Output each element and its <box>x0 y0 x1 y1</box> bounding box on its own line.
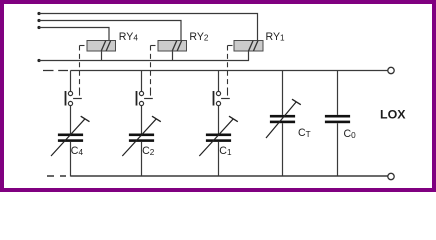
wire branch C4 from main bus to switch <box>70 71 72 92</box>
wire RY2 bottom lead <box>172 51 174 61</box>
wire branch C2 from main bus to switch <box>141 71 143 92</box>
wire C2 to bottom bus <box>141 142 143 177</box>
wire RY4 bottom lead <box>101 51 103 61</box>
capacitor C1 (variable) <box>199 116 238 156</box>
wire bottom bus dashed left stub <box>47 175 66 177</box>
wire relay bus <box>39 51 249 61</box>
relay RY4 <box>87 41 116 52</box>
wire CT to bottom bus <box>282 123 284 176</box>
wire branch C0 from main bus <box>337 71 339 115</box>
switch S4 (relay contact) <box>66 91 82 106</box>
relay RY2 <box>158 41 187 52</box>
capacitor C4 (variable) <box>51 116 90 156</box>
wire C1 to bottom bus <box>218 142 220 177</box>
node relay-bus terminal dot <box>37 59 40 62</box>
mechanical link RY2 to switch S2 (dashed) <box>151 46 159 96</box>
mechanical link RY1 to switch S1 (dashed) <box>228 46 235 96</box>
node feed terminal dot 3 <box>37 26 40 29</box>
wire feed line 3 to RY4 <box>39 28 109 41</box>
capacitor CT (trimmer, variable) <box>266 99 301 138</box>
wire main bus <box>71 70 388 72</box>
capacitor C0 (fixed) <box>325 115 350 123</box>
wire switch S2 to capacitor C2 <box>141 106 143 134</box>
wire branch C1 from main bus to switch <box>218 71 220 92</box>
wire main bus dashed left stub <box>43 70 68 72</box>
wire switch S1 to capacitor C1 <box>218 106 220 134</box>
node feed terminal dot 2 <box>37 19 40 22</box>
switch S2 (relay contact) <box>137 91 153 106</box>
switch S1 (relay contact) <box>214 91 230 106</box>
wire feed line 1 to RY1 <box>39 14 258 41</box>
terminal bottom right (open circle) <box>388 173 394 179</box>
node feed terminal dot 1 <box>37 12 40 15</box>
wire branch CT from main bus <box>282 71 284 115</box>
wire C0 to bottom bus <box>337 123 339 176</box>
terminal top right (open circle) <box>388 67 394 73</box>
mechanical link RY4 to switch S4 (dashed) <box>80 46 88 96</box>
wire feed line 2 to RY2 <box>39 21 181 41</box>
wire bottom bus <box>71 175 388 177</box>
wire switch S4 to capacitor C4 <box>70 106 72 134</box>
svg-text:LOX: LOX <box>380 107 406 121</box>
wire C4 to bottom bus <box>70 142 72 177</box>
capacitor C2 (variable) <box>122 116 161 156</box>
relay RY1 <box>234 41 263 52</box>
